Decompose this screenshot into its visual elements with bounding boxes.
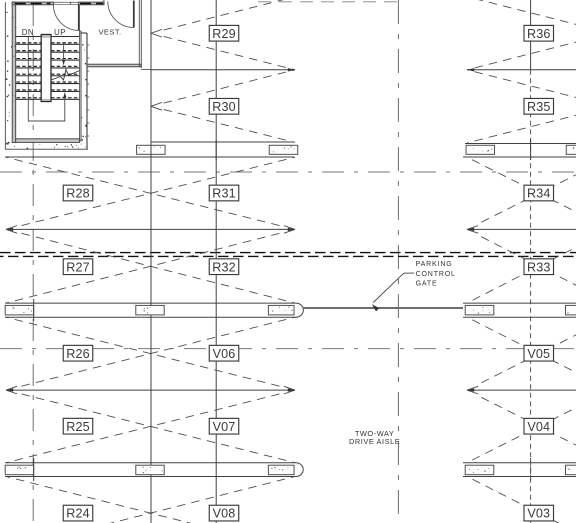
- svg-text:R25: R25: [66, 420, 89, 434]
- svg-text:R31: R31: [212, 187, 235, 201]
- svg-text:DN: DN: [22, 28, 34, 37]
- svg-text:R32: R32: [212, 260, 235, 274]
- svg-text:DRIVE AISLE: DRIVE AISLE: [349, 437, 400, 446]
- svg-text:V07: V07: [213, 420, 236, 434]
- svg-text:V08: V08: [213, 507, 236, 521]
- svg-text:PARKING: PARKING: [416, 261, 453, 268]
- svg-text:V06: V06: [213, 347, 236, 361]
- svg-text:R27: R27: [66, 260, 89, 274]
- svg-text:R35: R35: [527, 100, 550, 114]
- svg-text:R36: R36: [527, 27, 550, 41]
- svg-text:R26: R26: [66, 347, 89, 361]
- svg-text:R29: R29: [212, 27, 235, 41]
- svg-text:R33: R33: [527, 260, 550, 274]
- svg-text:UP: UP: [54, 28, 66, 37]
- svg-text:R24: R24: [66, 507, 89, 521]
- svg-text:R30: R30: [212, 100, 235, 114]
- svg-text:GATE: GATE: [416, 280, 438, 287]
- svg-text:R34: R34: [527, 187, 550, 201]
- svg-text:CONTROL: CONTROL: [416, 271, 456, 278]
- svg-text:V04: V04: [527, 420, 550, 434]
- svg-text:R28: R28: [66, 187, 89, 201]
- svg-text:VEST.: VEST.: [98, 28, 121, 37]
- svg-text:V05: V05: [527, 347, 550, 361]
- svg-text:V03: V03: [527, 507, 550, 521]
